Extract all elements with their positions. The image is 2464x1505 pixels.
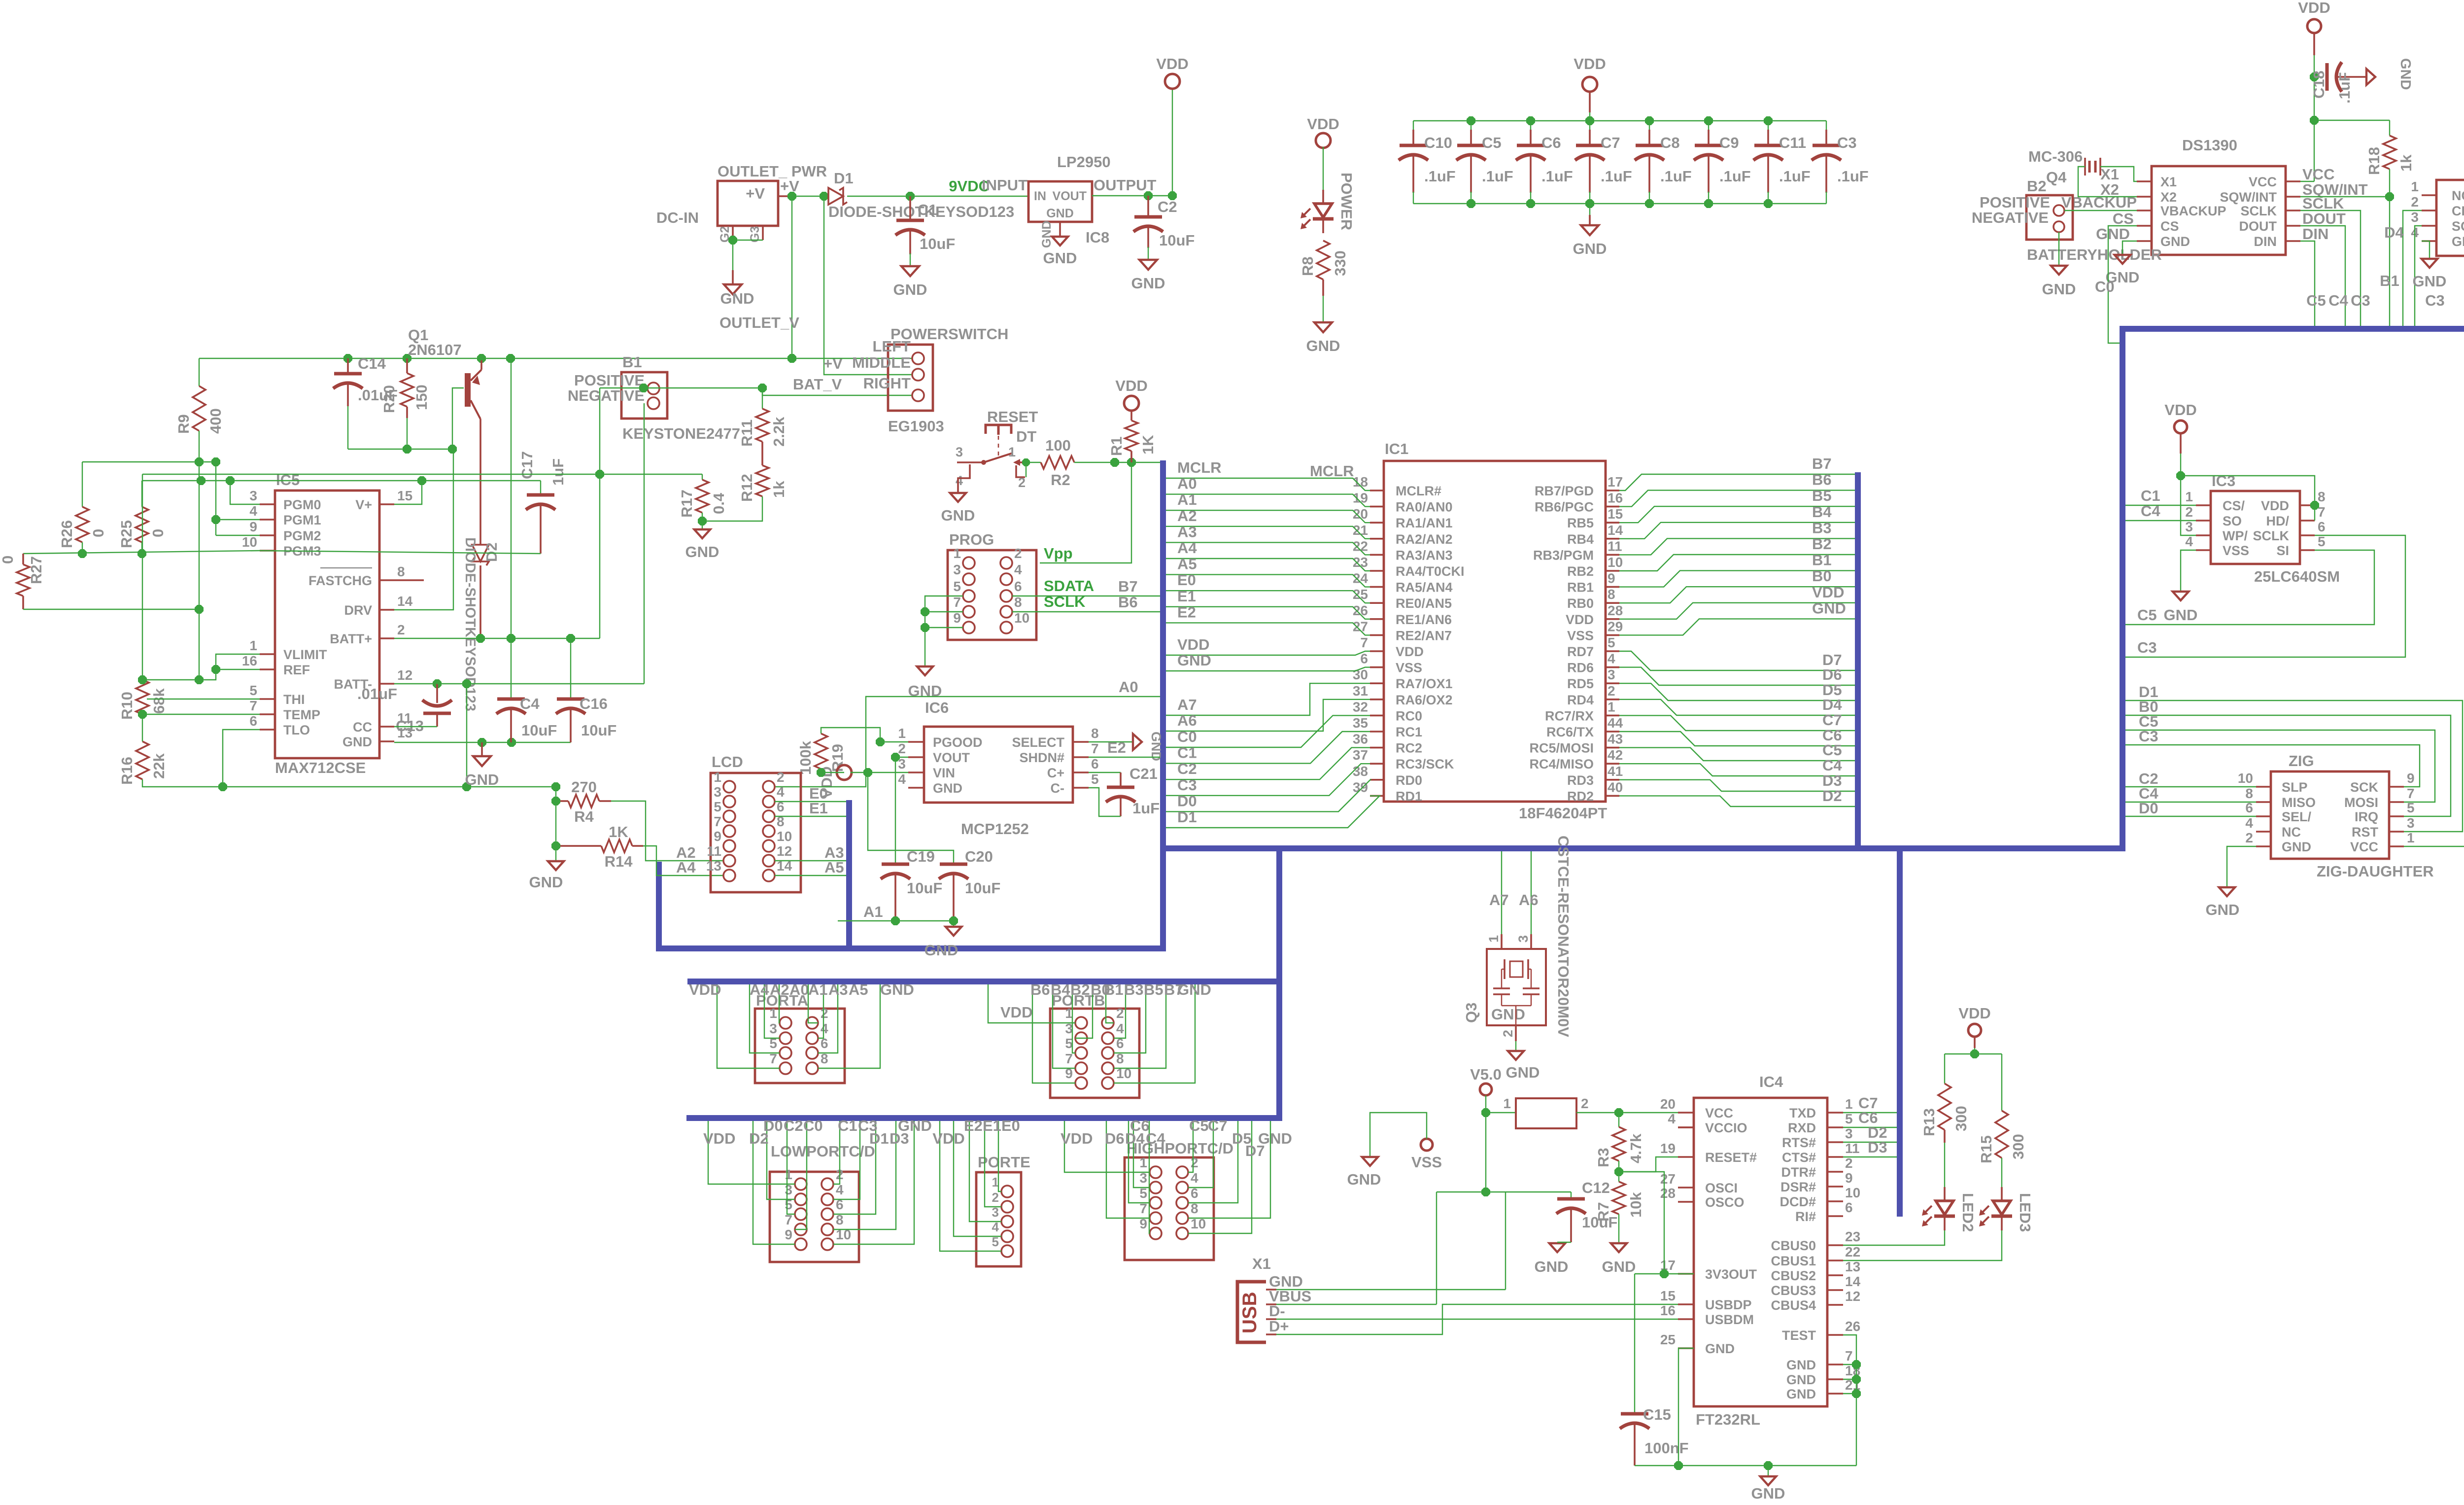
svg-text:1: 1 [1503,1096,1511,1111]
wire A5 from LCD [775,875,846,876]
svg-text:MOSI: MOSI [2344,795,2378,810]
bus LCD horizontal [659,945,1166,951]
pin 5 SI of IC3 [2300,549,2315,551]
svg-text:C21: C21 [1129,765,1158,782]
wire D2 from IC1 [1619,796,1855,806]
svg-text:R14: R14 [605,853,633,870]
svg-text:C2: C2 [784,1117,803,1134]
svg-text:MIDDLE: MIDDLE [852,354,911,371]
pin 5 IRQ of ZIG [2389,815,2404,817]
svg-text:1: 1 [769,1006,777,1021]
svg-text:R18: R18 [2365,147,2383,175]
svg-text:15: 15 [1660,1288,1676,1303]
svg-text:RTS#: RTS# [1782,1135,1816,1150]
wire B2 from IC1 [1619,555,1855,571]
ground GND at R8 [1314,322,1332,332]
wire VDD from IC1 [1619,603,1855,619]
pin 3 of PROG [963,573,975,585]
svg-text:1: 1 [714,770,721,785]
wire VLIMIT REF feed [142,654,260,680]
svg-text:OUTPUT: OUTPUT [1094,176,1157,194]
svg-text:RESET: RESET [987,408,1038,425]
pin 9 SCK of ZIG [2389,786,2404,788]
pin 2 of PORTE [1001,1201,1013,1213]
svg-text:1: 1 [1608,699,1615,714]
svg-text:C16: C16 [580,695,608,712]
pin 9 RB1 of IC1 [1606,586,1619,588]
wire C6 to HIGHPORT [1133,1121,1150,1188]
svg-text:4: 4 [956,473,963,488]
pin 9 of PORTB [1075,1077,1087,1089]
svg-text:DOUT: DOUT [2302,210,2346,227]
pin 4 VSS of IC3 [2196,549,2211,551]
wire C3 to LOWPORT [833,1121,860,1199]
svg-text:8: 8 [1091,726,1099,741]
wire Q1 collector chain [511,358,512,638]
svg-text:23: 23 [1845,1229,1860,1244]
wire PGM1 PGM2 feed [215,462,216,535]
pin 8 SELECT of IC6 [1073,741,1089,743]
pin 38 RD0 of IC1 [1370,779,1384,781]
pin 3 RST of ZIG [2389,831,2404,833]
svg-text:DTR#: DTR# [1781,1165,1816,1180]
wire D1 to RST [2125,700,2463,832]
svg-text:C4: C4 [2328,292,2348,309]
ground GND at R14 [548,861,564,870]
svg-text:44: 44 [1608,715,1623,731]
wire GND to HIGHPORT [1188,1121,1270,1218]
pin 22 CBUS1 of IC4 [1827,1260,1843,1261]
wire C4 to HIGHPORT [1149,1121,1150,1233]
svg-text:150: 150 [413,385,430,410]
bus port rail upper [687,979,1279,984]
ground GND at DC-IN [724,284,742,294]
svg-text:D1: D1 [834,170,854,187]
svg-text:TXD: TXD [1789,1106,1816,1120]
pin 6 SEL/ of ZIG [2256,815,2271,817]
svg-text:38: 38 [1353,764,1368,779]
pin 7 of LOWPORTC/D [795,1224,807,1235]
pin 43 RC5/MOSI of IC1 [1606,747,1619,749]
svg-text:OSCI: OSCI [1705,1181,1738,1195]
wire A5 to PORTA [818,984,838,1053]
wire TLO [223,730,260,787]
pin 6 VSS of IC1 [1370,666,1384,668]
wire RTS# D2 [1843,1142,1897,1143]
pin 8 of LCD [763,825,775,837]
connector PROG [948,550,1036,640]
svg-text:2: 2 [2411,194,2419,210]
svg-text:GND: GND [1751,1485,1785,1502]
svg-text:A7: A7 [1489,891,1509,909]
resistor R27 0 [22,554,24,564]
supply VDD at VIN [837,765,852,780]
wire C3 to IC1 [1166,764,1370,796]
svg-text:VSS: VSS [1396,661,1422,675]
pin 3 of LCD [723,796,735,807]
svg-text:A0: A0 [1119,678,1138,696]
wire FASTCHG stub [394,579,424,581]
svg-text:GND: GND [1491,1006,1525,1023]
resistor R26 0 [82,462,83,507]
wire ground rail under FT232 [1635,1465,1856,1466]
wire GND to LOWPORT [833,1121,914,1244]
pin 26 RE1/AN6 of IC1 [1370,618,1384,620]
svg-text:GND: GND [2206,901,2240,918]
capacitor C3 .1uF [1813,144,1840,147]
wire D7 to HIGHPORT [1188,1121,1252,1233]
svg-text:C-: C- [1051,781,1065,796]
wire DRV to Q1 base [394,448,453,610]
bus MCU-right vertical [1855,472,1861,848]
svg-text:TLO: TLO [283,723,310,737]
wire B3 to PORTB [1114,984,1126,1038]
svg-text:3V3OUT: 3V3OUT [1705,1267,1757,1282]
svg-text:GND: GND [1535,1258,1569,1275]
pin 5 of LCD [723,810,735,822]
svg-text:RC1: RC1 [1396,725,1422,739]
svg-text:A3: A3 [1177,523,1197,540]
pin 27 OSCI of IC4 [1678,1187,1694,1189]
wire Q1 base rail [348,449,452,450]
pin 6 SCLK of IC3 [2300,534,2315,536]
wire BAT_V sense to R17 [142,474,702,475]
wire E2 to IC1 [1166,623,1370,635]
svg-text:A6: A6 [1519,891,1539,909]
svg-text:5: 5 [714,799,721,814]
svg-text:0: 0 [0,556,16,564]
svg-text:8: 8 [397,564,405,579]
svg-text:VSS: VSS [1567,628,1594,643]
wire crystal to X1 X2 [2100,167,2137,181]
pin 8 FASTCHG of IC5 [379,579,394,581]
svg-text:7: 7 [1360,635,1368,650]
svg-text:USBDM: USBDM [1705,1312,1754,1327]
wire VDD to R18 [2314,120,2390,121]
wire A0 to IC1 [1166,494,1370,507]
svg-text:NC1: NC1 [2452,188,2464,203]
wire USB GND [1276,1289,1506,1290]
svg-text:R26: R26 [58,520,75,548]
wire CC [394,726,437,727]
svg-text:.1uF: .1uF [1482,168,1513,185]
ground GND arrow at C18 [2366,69,2375,85]
svg-text:3: 3 [2407,815,2415,831]
svg-text:16: 16 [242,653,257,668]
svg-text:GND: GND [1786,1387,1816,1401]
pin 7 GND of IC4 [1827,1364,1843,1365]
pin 2 VOUT of IC6 [908,756,924,758]
svg-text:D3: D3 [1868,1139,1887,1156]
svg-text:GND: GND [1506,1064,1540,1081]
pin 39 RD1 of IC1 [1370,795,1384,797]
svg-text:16: 16 [1608,490,1623,506]
svg-text:OSCO: OSCO [1705,1195,1745,1210]
svg-text:2: 2 [992,1190,999,1205]
svg-text:10uF: 10uF [907,879,942,897]
pin 11 CTS# of IC4 [1827,1156,1843,1158]
ground GND at resonator [1515,1041,1516,1050]
svg-text:GND: GND [1043,249,1077,267]
supply VDD at power LED [1316,133,1331,148]
svg-text:11: 11 [707,843,721,859]
resistor R15 300 [2001,1054,2002,1111]
svg-text:A5: A5 [824,859,844,876]
svg-text:USB: USB [1239,1292,1261,1333]
svg-text:GND: GND [2164,606,2198,624]
svg-text:VDD: VDD [2261,498,2289,513]
svg-text:DC-IN: DC-IN [656,209,699,226]
pin 8 of HIGHPORTC/D [1176,1212,1188,1224]
pin 7 TEMP of IC5 [260,713,275,715]
svg-text:GND: GND [2042,280,2076,298]
svg-text:1: 1 [1486,935,1501,943]
pin 28 VDD of IC1 [1606,618,1619,620]
wire VDD to PORTA [717,984,780,1068]
svg-text:1K: 1K [1139,435,1157,455]
svg-text:GND: GND [2452,234,2464,249]
svg-text:SO: SO [2223,514,2242,528]
pin 3 of HIGHPORTC/D [1150,1182,1162,1193]
svg-text:R20: R20 [380,385,398,413]
pin 9 PGM2 of IC5 [260,534,275,536]
svg-text:1: 1 [785,1167,792,1182]
svg-text:C5: C5 [1822,741,1842,759]
pin 19 RESET# of IC4 [1678,1156,1694,1158]
diode D2 DIODE-SHOTKEYSOD123 [472,545,489,561]
IC DS1390 RTC [2152,166,2286,255]
svg-text:2: 2 [1845,1155,1853,1171]
svg-text:PORTE: PORTE [978,1154,1030,1171]
wire VBUS rail [1437,1191,1571,1192]
wire C5 from IC1 [1619,748,1855,761]
svg-text:CBUS1: CBUS1 [1771,1254,1816,1268]
svg-text:SELECT: SELECT [1012,735,1064,750]
svg-text:RA5/AN4: RA5/AN4 [1396,580,1453,595]
svg-text:C3: C3 [1177,776,1197,794]
resistor R16 22k [136,741,149,779]
svg-text:RC3/SCK: RC3/SCK [1396,757,1454,771]
svg-text:20: 20 [1353,506,1368,522]
pin 2 GND of ZIG [2256,845,2271,847]
svg-text:6: 6 [1845,1200,1853,1215]
svg-text:8: 8 [1608,587,1615,602]
ground GND at RESET [958,464,970,492]
bus LCD vertical [846,800,852,948]
svg-text:GND: GND [941,507,975,524]
pin 7 of PORTA [780,1062,791,1074]
svg-text:B7: B7 [1812,455,1832,472]
wire D5 to HIGHPORT [1188,1121,1238,1203]
svg-text:BATTERYHOLDER: BATTERYHOLDER [2027,246,2162,263]
pin 14 CBUS3 of IC4 [1827,1289,1843,1291]
svg-text:SHDN#: SHDN# [1019,750,1064,765]
wire B0 to PORTB [1075,984,1093,1038]
pin 4 NC of ZIG [2256,831,2271,833]
ground GND at C1 [901,266,919,276]
svg-text:SCK: SCK [2452,219,2464,234]
pin 4 of PORTB [1102,1032,1114,1044]
svg-text:RA4/T0CKI: RA4/T0CKI [1396,564,1465,579]
svg-text:42: 42 [1608,747,1623,763]
svg-text:2: 2 [1191,1155,1198,1170]
svg-text:LEFT: LEFT [873,338,911,355]
wire E0 from LCD [775,801,846,802]
pin 5 THI of IC5 [260,698,275,700]
wire B3 from IC1 [1619,538,1855,555]
svg-text:1K: 1K [609,823,628,840]
svg-text:R9: R9 [175,414,192,434]
pin SQW/INT of DS1390 [2286,196,2300,198]
svg-text:22k: 22k [150,753,168,779]
svg-text:C4: C4 [1146,1130,1165,1147]
svg-text:VDD: VDD [2164,401,2196,419]
pin 3 of LOWPORTC/D [795,1193,807,1205]
wire BATT- to B1 negative [437,683,644,684]
wire VDD to PORTB [988,984,1075,1023]
svg-text:RA7/OX1: RA7/OX1 [1396,676,1453,691]
svg-text:IC6: IC6 [925,699,949,716]
LED LED3 [2001,1187,2003,1201]
svg-text:R17: R17 [678,490,695,518]
svg-text:GND: GND [1705,1341,1735,1356]
IC4 FT232RL USB UART [1694,1098,1827,1406]
svg-text:DIN: DIN [2302,225,2328,243]
supply VDD at regulator output [1172,88,1173,196]
wire A2 to IC1 [1166,526,1370,539]
svg-text:2: 2 [2245,830,2253,845]
pin 2 of resonator [1515,1025,1517,1041]
pin 1 of LOWPORTC/D [795,1178,807,1190]
pin 8 MISO of ZIG [2256,801,2271,803]
ground GND at IC5 [394,742,571,743]
pin 5 of PORTE [1001,1245,1013,1257]
wire CBUS1 to LED3 [1843,1230,2002,1260]
svg-text:3: 3 [2185,519,2193,534]
bus top-right horizontal [2120,326,2464,332]
svg-text:B1: B1 [622,353,642,371]
pin 8 RB0 of IC1 [1606,602,1619,604]
svg-text:GND: GND [1347,1171,1381,1188]
svg-text:B0: B0 [1812,567,1832,585]
svg-text:D0: D0 [1177,792,1197,809]
svg-text:C0: C0 [1177,728,1197,745]
wire USB gnd riser [1505,1192,1506,1290]
svg-text:RIGHT: RIGHT [863,375,911,392]
wire C2 to LOWPORT [787,1121,795,1214]
svg-text:1: 1 [1139,1155,1147,1170]
wire D1 to IC1 [1166,796,1380,828]
svg-text:C6: C6 [1541,134,1561,151]
pin 2 of LCD [763,781,775,793]
svg-text:VDD: VDD [2298,0,2330,16]
wire PGM rail lower [142,480,541,481]
wire B2 negative to ground [2058,232,2059,265]
svg-text:A5: A5 [1177,556,1197,573]
svg-text:GND: GND [2397,58,2413,90]
svg-text:RESET#: RESET# [1705,1150,1757,1165]
pin 7 VDD of IC1 [1370,650,1384,652]
svg-text:7: 7 [714,814,721,829]
pin 8 of PROG [1000,606,1012,618]
wire E1 to PORTE [985,1121,1001,1207]
svg-text:MISO: MISO [2282,795,2316,810]
svg-text:36: 36 [1353,732,1368,747]
svg-text:9: 9 [1608,571,1615,586]
svg-text:RB0: RB0 [1567,596,1594,611]
svg-text:VLIMIT: VLIMIT [283,647,327,662]
svg-text:B7: B7 [1118,578,1138,595]
wire D7 from IC1 [1619,651,1855,670]
svg-text:D3: D3 [1822,772,1842,789]
svg-text:6: 6 [1091,756,1099,771]
pin 3 of PORTA [780,1032,791,1044]
wire B7 to PORTB [1114,984,1166,1068]
svg-text:5: 5 [1091,771,1099,787]
pin 2 of PORTB [1102,1017,1114,1029]
svg-text:A1: A1 [863,903,883,920]
wire B1 from IC1 [1619,571,1855,587]
svg-text:A4: A4 [1177,539,1197,557]
ground GND at C12 [1549,1243,1565,1252]
wire SHDN# E2 [1089,757,1160,758]
svg-text:B1: B1 [1104,981,1124,998]
svg-text:RD7: RD7 [1567,644,1594,659]
svg-text:7: 7 [953,595,961,610]
svg-text:RD3: RD3 [1567,773,1594,788]
svg-text:C11: C11 [1779,134,1806,151]
svg-text:1: 1 [1845,1096,1853,1112]
svg-text:RB1: RB1 [1567,580,1594,595]
svg-text:3: 3 [2411,210,2419,225]
wire E0 to PORTE [998,1121,1001,1191]
wire A4 to PORTA [750,984,780,1053]
pin DOUT of DS1390 [2286,225,2300,227]
switch POWERSWITCH EG1903 [888,345,933,411]
svg-text:4: 4 [249,503,257,519]
svg-text:4: 4 [1116,1021,1124,1036]
pin X2 of DS1390 [2137,196,2152,198]
svg-text:.1uF: .1uF [1837,168,1869,185]
svg-text:OUTLET_ PWR: OUTLET_ PWR [718,163,827,180]
pin 4 of LOWPORTC/D [821,1193,833,1205]
ground GND at C20 [953,921,954,926]
svg-text:1: 1 [1008,445,1016,459]
svg-text:D4: D4 [1125,1130,1145,1147]
svg-text:12: 12 [777,843,792,859]
svg-text:C7: C7 [1601,134,1620,151]
svg-text:8: 8 [2318,489,2326,504]
svg-text:43: 43 [1608,732,1623,747]
pin 4 of PROG [1000,573,1012,585]
svg-text:4: 4 [2245,815,2253,831]
svg-text:1: 1 [2411,179,2419,194]
svg-text:A5: A5 [849,981,868,998]
svg-text:RC7/RX: RC7/RX [1545,708,1594,723]
wire GND to PORTE [940,1121,1001,1251]
svg-text:DIN: DIN [2254,234,2277,249]
pin 6 of PORTB [1102,1047,1114,1059]
pin 4 VCCIO of IC4 [1678,1126,1694,1128]
svg-text:A0: A0 [789,981,809,998]
svg-text:PGM0: PGM0 [283,497,321,512]
wire A2 to LCD [599,800,611,802]
svg-text:7: 7 [1065,1051,1073,1066]
svg-text:DCD#: DCD# [1780,1194,1816,1209]
svg-text:A3: A3 [828,981,848,998]
wire GND from IC1 [1619,619,1855,635]
svg-text:8: 8 [1014,595,1022,610]
